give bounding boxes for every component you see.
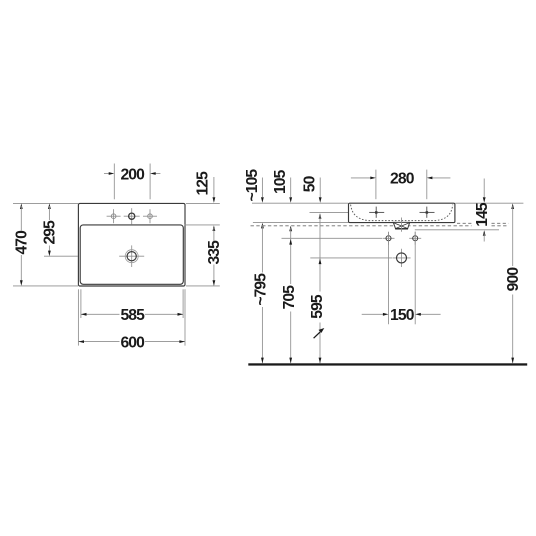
washbasin inner basin rectangle (plan) [80,225,183,284]
svg-text:705: 705 [281,285,298,310]
dimension 150 line and arrows [362,313,383,315]
dimension 470 line with arrows [20,203,23,209]
basin bottom hidden dashed line right [457,222,472,224]
svg-text:295: 295 [41,220,58,245]
svg-text:600: 600 [120,335,145,352]
mounting hole right (elevation) [409,232,421,245]
dimension 280 line and arrows [351,177,371,179]
svg-text:335: 335 [206,240,223,265]
dimension 600 extension lines [77,289,79,345]
extension line drain level left [44,255,78,257]
dimension 145 line [483,179,485,198]
svg-text:200: 200 [120,167,145,184]
washbasin elevation body [349,203,455,222]
rim level reference line right [455,202,523,204]
wall bracket dashed line across [251,225,472,227]
drain underside level line (145 reference) [415,229,499,231]
dimension 280 extension lines [375,170,377,200]
dimension 295 line with arrows [48,203,51,209]
dimension 125 line (right of plan, above) [213,177,215,197]
bowl interior hidden curve [351,205,453,221]
drain hole (elevation) [392,249,410,267]
extension line rim top right [186,202,220,204]
extension line bottom right [186,285,220,287]
extension line inner basin top right [185,224,220,226]
inner ledge level line (50) [310,211,349,213]
drain hole (plan) crosshair circles [119,245,144,267]
svg-text:~795: ~795 [252,273,269,306]
dimension 50 line [319,178,321,198]
faucet mark left (elevation) [369,207,384,218]
drain hole level line [310,257,392,259]
svg-text:900: 900 [505,267,522,292]
svg-text:105: 105 [272,169,289,194]
dimension 150 extension lines [388,232,390,325]
svg-text:585: 585 [120,307,145,324]
svg-text:50: 50 [302,175,319,192]
extension line bottom left [13,285,78,287]
washbasin outer rim rectangle (plan) [78,203,185,286]
svg-text:~105: ~105 [244,169,261,202]
dimension 595 line: from drain hole center to floor [319,213,322,219]
faucet hole left (plan) crosshair [107,209,121,223]
dimension 900 line [511,203,514,209]
dimension 705 line: from mounting holes to floor [289,226,292,232]
drain outlet trapezoid (elevation) [393,222,409,228]
extension line rim top left [13,202,78,204]
dimension 105 line (second) [290,178,292,198]
mounting hole left (elevation) [383,232,395,245]
faucet hole right (plan) crosshair [143,209,157,223]
dimension 200 line and arrows [104,173,109,175]
rim level reference line left [252,202,348,204]
floor line [248,363,527,365]
dimension 595 pointer arrow [314,332,321,338]
mounting hole level line [282,237,383,239]
dimension 600 line with arrows [78,341,119,343]
svg-text:280: 280 [390,171,415,188]
drain center line (elevation) [401,218,403,232]
basin bottom level line left [253,221,348,223]
svg-text:470: 470 [13,230,30,255]
svg-text:150: 150 [390,307,415,324]
dimension ~105 line (first) [261,178,263,198]
dimension 335 line with arrows [213,225,216,231]
dimension ~795 line: from basin bottom to floor [261,223,264,229]
dimension 585 extension lines [80,289,82,318]
faucet hole center (plan) crosshair [124,208,140,224]
dimension 200 extension lines [113,164,115,200]
svg-text:595: 595 [309,294,326,319]
dimension 585 line with arrows [81,313,120,315]
svg-text:125: 125 [194,171,211,196]
svg-text:145: 145 [474,202,491,227]
faucet mark right (elevation) [420,207,435,218]
